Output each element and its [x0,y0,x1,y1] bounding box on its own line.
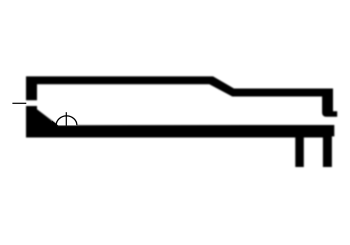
datum tick mark at left slot [12,102,26,104]
rivet dome arc [56,116,77,125]
lower rail profile (bottom bar with left block, slope and two hanging legs) [26,106,334,167]
rivet foot fillet where slope meets dome [52,121,58,126]
upper rail profile (top bar with left vertical, step-down and right hook foot) [26,76,337,116]
rivet centerline [65,112,67,126]
